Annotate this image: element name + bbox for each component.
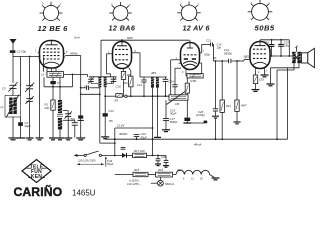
- svg-text:500mA: 500mA: [165, 182, 174, 186]
- svg-text:100p: 100p: [284, 44, 290, 48]
- capacitor C30 electrolytic: [156, 155, 161, 164]
- svg-text:C12: C12: [137, 83, 143, 87]
- svg-text:KEN: KEN: [31, 174, 42, 180]
- wire AVC branch: [39, 57, 41, 138]
- wire V4 plate to output transformer: [272, 55, 292, 57]
- wire grid input bus: [13, 56, 40, 58]
- wire V2 plate to IF2: [134, 53, 141, 77]
- resistor R16 (NTC): [156, 172, 176, 177]
- svg-text:7: 7: [269, 2, 271, 6]
- trimmer capacitor C7a: [25, 96, 33, 137]
- svg-text:110-125V 220V: 110-125V 220V: [78, 159, 96, 163]
- svg-text:50μF: 50μF: [107, 162, 114, 166]
- tube socket diagram V3 12AV6: [177, 1, 200, 20]
- svg-text:10p: 10p: [217, 46, 222, 50]
- capacitor C2 (antenna series cap): [10, 50, 16, 56]
- IF transformer 1 frame: [89, 76, 116, 78]
- node at x39.5: [39, 56, 41, 58]
- capacitor C31 electrolytic: [164, 155, 169, 165]
- ground (osc coil / C7): [49, 138, 64, 140]
- tube V4 pin ticks: [248, 56, 272, 71]
- node R12: [236, 60, 238, 62]
- tube V2 plate: [117, 42, 127, 46]
- wire heater row: [115, 174, 133, 176]
- svg-text:1465U: 1465U: [72, 189, 96, 198]
- wire heater feed: [115, 127, 154, 155]
- svg-text:3000Ω: 3000Ω: [119, 132, 128, 136]
- switch S contact 1: [84, 154, 86, 156]
- wire coil to ground: [12, 117, 14, 138]
- wire V1 plate to IF1: [65, 56, 80, 138]
- switch S lever: [86, 151, 98, 155]
- ground (IF2 secondary): [154, 136, 161, 138]
- IF2 trimmer cap right C14: [163, 77, 169, 97]
- svg-text:5: 5: [66, 51, 68, 54]
- wire C26 to bus: [215, 119, 217, 141]
- svg-text:0,5M: 0,5M: [190, 79, 197, 83]
- svg-text:50μF: 50μF: [25, 124, 32, 128]
- resistor R4 (screen): [129, 70, 133, 97]
- capacitor C18: [170, 68, 181, 96]
- wire IF1 primary to heater row: [100, 121, 116, 145]
- resistor R8: [185, 78, 189, 118]
- ground (speaker frame): [267, 84, 275, 86]
- resistor R13 (output cathode): [253, 71, 257, 89]
- svg-text:1: 1: [35, 50, 37, 53]
- svg-text:500p: 500p: [204, 53, 210, 57]
- svg-text:7: 7: [60, 3, 62, 7]
- voltage selector arrows: [77, 156, 107, 166]
- wire bus riser: [287, 68, 289, 139]
- capacitor C22: [228, 59, 232, 63]
- svg-text:2: 2: [42, 2, 44, 6]
- node bus / heater: [114, 138, 116, 140]
- capacitor C7 blob (osc cathode): [50, 77, 55, 137]
- tube V3 12AV6 envelope: [181, 43, 200, 70]
- wire IF1 primary bottom: [80, 87, 101, 120]
- wire antenna branch down: [12, 57, 14, 84]
- mains plug arrow: [74, 154, 78, 157]
- svg-text:5000p: 5000p: [224, 51, 232, 55]
- terminal (pickup left): [125, 95, 127, 97]
- antenna: [10, 39, 17, 50]
- tube V2 cathode: [116, 64, 128, 66]
- capacitor C25 (tone): [269, 39, 275, 57]
- capacitor C17: [163, 100, 169, 129]
- tube V1 pin ticks: [38, 52, 66, 71]
- svg-text:(0,05μ): (0,05μ): [196, 113, 205, 117]
- output transformer Tr primary: [292, 52, 296, 63]
- tube V3 diode plates: [184, 58, 196, 60]
- tube V3 cathode: [183, 61, 197, 66]
- oscillator coil L5 winding 2: [58, 118, 63, 129]
- capacitor C34 bars: [121, 147, 126, 149]
- tube socket diagram V1 12BE6: [40, 2, 63, 21]
- svg-text:6: 6: [183, 178, 185, 181]
- tube V1 cathode: [44, 62, 59, 64]
- wire IF1 secondary bottom: [104, 87, 116, 113]
- volume potentiometer R10: [167, 92, 189, 105]
- terminal (pickup right): [169, 95, 171, 97]
- ground (R12): [233, 122, 240, 124]
- ground (C31): [163, 166, 169, 168]
- resistor R15 (line dropper): [133, 172, 156, 176]
- wire AF grid line: [214, 60, 241, 62]
- svg-text:L1: L1: [1, 105, 5, 109]
- svg-text:C5: C5: [2, 87, 6, 91]
- ground (gang 2): [26, 138, 34, 140]
- resistor R1 (osc grid leak): [51, 100, 55, 110]
- resistor R17: [133, 153, 166, 157]
- resistor R12: [235, 61, 239, 122]
- wire V4 grid: [237, 60, 248, 61]
- node at x29.6: [29, 56, 31, 58]
- oscillator coil L5 winding 1: [58, 100, 63, 113]
- svg-text:7: 7: [266, 71, 268, 74]
- ground (C19): [183, 122, 191, 124]
- IF1 winding right: [103, 77, 107, 87]
- capacitor C26: [213, 60, 218, 116]
- capacitor C13 blob AVC: [103, 113, 108, 136]
- wire osc box right loop: [64, 74, 88, 77]
- svg-text:50μF: 50μF: [141, 135, 148, 139]
- wire to tube1 bottom: [42, 57, 44, 72]
- output transformer top tick: [295, 46, 298, 52]
- svg-text:R15: R15: [134, 168, 140, 172]
- resistor R11: [220, 61, 224, 140]
- svg-text:48mA: 48mA: [194, 143, 201, 147]
- antenna coil L1 (shielded): [5, 95, 21, 118]
- svg-text:C2 50p: C2 50p: [17, 50, 27, 54]
- svg-text:20k: 20k: [44, 106, 50, 110]
- IF1 trimmer cap right C10: [105, 77, 117, 84]
- svg-text:C10: C10: [116, 85, 122, 89]
- svg-text:R17 220: R17 220: [134, 149, 145, 153]
- coupling capacitor C21: [202, 42, 214, 61]
- svg-text:12,6V: 12,6V: [117, 124, 125, 128]
- wire IF2 secondary down: [157, 88, 159, 138]
- resistor R3: [116, 94, 125, 98]
- loudspeaker: [301, 48, 315, 67]
- ground (heater chain): [212, 178, 220, 180]
- capacitor C29 on bus: [134, 135, 139, 141]
- capacitor C12: [141, 77, 146, 97]
- ground (C13 on bus): [101, 137, 109, 139]
- svg-text:C14: C14: [169, 80, 175, 84]
- IF1 trimmer cap left C9: [88, 77, 100, 84]
- svg-text:7: 7: [129, 3, 131, 7]
- svg-text:12 AV 6: 12 AV 6: [183, 24, 211, 33]
- tube V3 grid: [184, 54, 197, 56]
- Telefunken logo diamond: [22, 160, 51, 183]
- svg-text:50B5: 50B5: [255, 24, 275, 33]
- trimmer capacitor C8a osc: [63, 111, 72, 138]
- svg-text:C30: C30: [161, 155, 167, 159]
- capacitor C4 (padder, electrolytic blob): [18, 57, 23, 138]
- tube V2 grids: [115, 49, 129, 59]
- resistor R6 (V2 cathode): [121, 71, 125, 96]
- wire B+ top bus: [101, 39, 190, 76]
- svg-text:110-125V~: 110-125V~: [127, 182, 141, 186]
- tube V4 50B5 envelope: [250, 42, 270, 69]
- svg-text:2mA: 2mA: [73, 36, 80, 40]
- wire V2 grid to IF1: [107, 54, 111, 77]
- svg-text:25: 25: [200, 178, 203, 181]
- wire V3 grid to volume pot: [171, 60, 179, 95]
- tube V1 plate: [46, 41, 58, 45]
- ground (C4): [17, 137, 25, 139]
- oscillator coil core: [57, 115, 63, 117]
- IF2 winding left: [151, 77, 155, 87]
- heater dropper coil: [176, 170, 210, 174]
- ground (trimmer osc): [64, 138, 72, 140]
- wire AVC feedback: [187, 121, 207, 124]
- wire coil to ground: [210, 175, 215, 178]
- tube V2 pin ticks: [111, 53, 134, 72]
- svg-text:5: 5: [135, 50, 137, 53]
- svg-text:C13: C13: [109, 109, 115, 113]
- tube V4 grids: [253, 49, 267, 58]
- svg-text:455kc: 455kc: [70, 52, 79, 56]
- svg-text:2: 2: [258, 71, 260, 74]
- tube V3 pin ticks: [179, 53, 202, 72]
- tube socket diagram V2 12BA6: [109, 2, 132, 21]
- wire IF2 primary down: [152, 88, 154, 156]
- tube V2 12BA6 envelope: [113, 42, 132, 69]
- wire B+ to transformer primary: [276, 63, 294, 140]
- svg-text:R16: R16: [158, 168, 164, 172]
- svg-text:48V~: 48V~: [177, 168, 184, 172]
- ground (R13): [252, 90, 260, 92]
- svg-text:50μF: 50μF: [170, 112, 177, 116]
- ground (C30): [155, 164, 161, 166]
- tube V3 top stub: [187, 40, 193, 48]
- ground (V4 pin2): [261, 75, 269, 77]
- svg-text:465: 465: [151, 71, 156, 75]
- tube V1 12BE6 envelope: [40, 41, 64, 69]
- svg-text:2: 2: [182, 71, 184, 74]
- capacitor C16 blob on branch: [78, 115, 84, 120]
- svg-text:C21: C21: [206, 39, 212, 43]
- oscillator coil box L3/L4: [47, 72, 64, 78]
- svg-text:CARIÑO: CARIÑO: [14, 184, 63, 199]
- ground (antenna coil): [9, 138, 18, 140]
- svg-text:R4: R4: [124, 81, 128, 85]
- svg-text:R8: R8: [213, 56, 217, 60]
- tube V4 plate: [255, 42, 266, 46]
- svg-text:7: 7: [198, 3, 200, 7]
- ground (C17): [162, 130, 170, 132]
- svg-text:R5: R5: [109, 119, 113, 123]
- capacitor C8 (osc grid cap): [80, 86, 100, 90]
- svg-text:12 BA6: 12 BA6: [109, 24, 136, 33]
- rectifier diode D1: [101, 153, 132, 158]
- wire transformer secondary return: [271, 63, 300, 83]
- svg-text:R3: R3: [115, 99, 119, 103]
- tuning capacitor C6 gang 2: [25, 57, 34, 99]
- svg-text:L3: L3: [41, 73, 45, 77]
- capacitor C24: [278, 39, 284, 57]
- svg-text:7: 7: [203, 50, 205, 53]
- tuning capacitor C5 gang 1: [8, 82, 17, 95]
- output transformer Tr secondary: [297, 52, 301, 63]
- ground (AVC branch): [36, 138, 44, 140]
- tube V1 grids: [43, 49, 60, 59]
- wire osc grid L: [44, 74, 73, 101]
- svg-text:R11: R11: [226, 104, 231, 108]
- tube V4 cathode: [254, 62, 267, 64]
- ground (V1 plate branch): [76, 138, 85, 140]
- output transformer cross hatch: [292, 52, 301, 63]
- svg-text:C7: C7: [57, 81, 61, 85]
- svg-text:C25: C25: [264, 41, 269, 45]
- resistor R9 (diode load): [186, 63, 203, 78]
- node C21/R11: [221, 60, 223, 62]
- wire B+ bottom bus: [105, 138, 287, 140]
- wire V4 plate top: [260, 40, 290, 57]
- svg-text:2: 2: [180, 2, 182, 6]
- ground (C26): [212, 116, 219, 118]
- switch S contact 2: [99, 154, 101, 156]
- IF1 winding left: [98, 77, 102, 87]
- svg-text:12: 12: [191, 178, 194, 181]
- svg-text:150: 150: [259, 78, 264, 82]
- IF transformer 2 frame: [140, 76, 167, 78]
- svg-text:1M: 1M: [175, 102, 180, 106]
- tube socket diagram V4 50B5: [248, 0, 273, 20]
- pilot lamp P: [151, 177, 164, 186]
- svg-text:5000p: 5000p: [170, 120, 178, 124]
- svg-text:4M7: 4M7: [241, 104, 247, 108]
- svg-text:1: 1: [108, 51, 110, 54]
- svg-text:12 BE 6: 12 BE 6: [38, 24, 69, 33]
- wire pickup bus: [127, 95, 168, 97]
- capacitor C9a padder: [63, 120, 78, 137]
- IF2 winding right: [156, 77, 160, 87]
- wire V4 pin2 stub: [264, 71, 266, 75]
- svg-text:6M8: 6M8: [127, 36, 133, 40]
- capacitor C19 blob: [184, 118, 190, 121]
- wire mains: [78, 154, 85, 156]
- wire osc coil to ground: [59, 128, 61, 137]
